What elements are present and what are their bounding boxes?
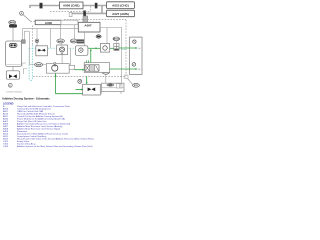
svg-text:B406: B406 — [58, 40, 64, 43]
svg-text:A030: A030 — [45, 21, 53, 25]
svg-text:A006 (CAB): A006 (CAB) — [63, 4, 80, 8]
svg-text:A015 (CHG): A015 (CHG) — [112, 3, 129, 7]
svg-text:Y403: Y403 — [3, 146, 9, 148]
svg-text:A4: A4 — [138, 47, 140, 50]
svg-text:A: A — [21, 11, 23, 15]
svg-text:B407: B407 — [71, 40, 77, 43]
svg-text:B412: B412 — [114, 38, 120, 41]
svg-text:Additive Injectors of the Main: Additive Injectors of the Main Volume Fl… — [17, 145, 93, 148]
svg-text:A027 (AMS): A027 (AMS) — [112, 12, 129, 16]
svg-text:A007: A007 — [84, 23, 92, 27]
svg-text:LEGEND: LEGEND — [3, 102, 14, 105]
svg-text:B409: B409 — [10, 21, 16, 24]
svg-text:OUO6075,0002241: OUO6075,0002241 — [6, 92, 22, 94]
svg-text:B408: B408 — [36, 64, 42, 67]
svg-text:K: K — [9, 83, 11, 87]
svg-text:Additive Dosing System - Schem: Additive Dosing System - Schematic — [2, 96, 50, 100]
svg-text:A8: A8 — [138, 68, 140, 71]
